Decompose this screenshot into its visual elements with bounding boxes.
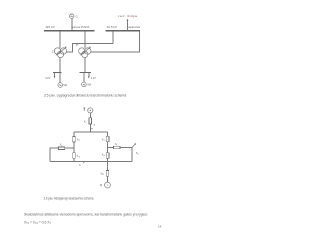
svg-text:a: a bbox=[94, 124, 96, 127]
wire bus to transformer T2 bbox=[84, 31, 86, 47]
svg-text:M: M bbox=[100, 183, 102, 187]
impedance Xs1 bbox=[73, 153, 81, 159]
svg-text:2T: 2T bbox=[76, 44, 79, 47]
wire XM to motor bbox=[107, 176, 109, 182]
wire bottom node bar bbox=[50, 160, 132, 162]
svg-text:XM: XM bbox=[100, 172, 104, 177]
wire left branch lower bbox=[73, 158, 75, 161]
impedance Xs bbox=[84, 118, 92, 124]
svg-text:XT1: XT1 bbox=[77, 138, 81, 143]
svg-text:14: 14 bbox=[158, 224, 162, 228]
wire left stub bbox=[65, 147, 74, 149]
wire top node bar bbox=[74, 131, 108, 133]
wire left branch upper bbox=[73, 132, 75, 137]
svg-text:S2: S2 bbox=[136, 151, 139, 156]
wire 10kV bus drop to tie line bbox=[112, 31, 114, 43]
bus 115 kV bbox=[44, 30, 94, 32]
wire left stub corner down bbox=[50, 148, 59, 161]
svg-text:115 kV: 115 kV bbox=[45, 25, 55, 29]
svg-text:Skaiciavimus atliekame vienodo: Skaiciavimus atliekame vienodoms apkrovo… bbox=[24, 212, 148, 216]
svg-text:6 kV: 6 kV bbox=[91, 77, 96, 80]
impedance Xk2 bbox=[114, 142, 120, 149]
svg-text:1T: 1T bbox=[52, 50, 55, 53]
wire T1 MV winding to 10kV bus tie bbox=[67, 43, 113, 52]
wire motor branch bbox=[107, 161, 109, 170]
svg-text:apkrova 25 MVA: apkrova 25 MVA bbox=[71, 25, 89, 29]
svg-text:XT2: XT2 bbox=[102, 137, 106, 142]
motor M bbox=[100, 182, 110, 188]
wire source to Xs bbox=[89, 113, 91, 118]
impedance XT1 bbox=[73, 137, 81, 143]
wire right stub to corner bbox=[120, 147, 132, 149]
svg-text:XT1 = XT2 = 0,5 XT: XT1 = XT2 = 0,5 XT bbox=[24, 220, 52, 225]
impedance Xs2 bbox=[102, 152, 109, 158]
wire Xs to node a bbox=[89, 124, 91, 132]
svg-text:Xs1: Xs1 bbox=[77, 154, 81, 159]
svg-text:apkrova: apkrova bbox=[128, 25, 141, 29]
wire right branch middle bbox=[107, 142, 109, 153]
wire right branch upper bbox=[107, 132, 109, 136]
wire right branch lower bbox=[107, 158, 109, 161]
wire T1 LV down to 6kV bar bbox=[59, 57, 61, 72]
svg-text:G: G bbox=[76, 15, 78, 19]
motor SM2 bbox=[82, 82, 91, 87]
impedance XT2 bbox=[102, 136, 109, 142]
motor SM1 bbox=[58, 83, 67, 88]
wire bar to motor SM1 bbox=[59, 73, 61, 83]
wire generator to 115kV bus bbox=[71, 18, 73, 30]
svg-text:3.5 pav. Lygiagreciai dirbanci: 3.5 pav. Lygiagreciai dirbanciu transfor… bbox=[44, 94, 127, 98]
wire right corner down bbox=[131, 148, 133, 162]
impedance Xk1 bbox=[59, 143, 65, 150]
wire right stub bbox=[108, 147, 114, 149]
bar 6 kV right bbox=[79, 72, 91, 74]
source E bbox=[83, 107, 93, 113]
wire bar to motor SM2 bbox=[83, 73, 85, 82]
wire T2 MV winding to 10kV bus right end bbox=[91, 31, 140, 52]
load arrow left bbox=[54, 73, 56, 79]
transformer T1 (three-winding, OLTC) bbox=[52, 47, 67, 58]
wire T2 LV down to 6kV bar bbox=[84, 57, 86, 72]
svg-text:Xk: Xk bbox=[115, 142, 118, 147]
impedance XM bbox=[100, 171, 108, 177]
wire left branch middle bbox=[73, 142, 75, 153]
svg-text:Xk: Xk bbox=[60, 143, 63, 148]
bar 6 kV left bbox=[53, 71, 61, 73]
node b bbox=[83, 161, 84, 163]
svg-text:6 kV: 6 kV bbox=[45, 77, 50, 80]
svg-text:Xs2: Xs2 bbox=[102, 152, 106, 157]
transformer T2 (three-winding, OLTC) bbox=[79, 47, 91, 58]
generator G1 bbox=[70, 14, 78, 19]
bus 10.5 kV bbox=[106, 30, 141, 32]
arrow load S2 bbox=[132, 143, 139, 156]
svg-text:10,5 kV: 10,5 kV bbox=[107, 25, 118, 29]
svg-text:SM: SM bbox=[63, 84, 67, 87]
arrow feeder up from 10kV bus bbox=[127, 19, 129, 31]
load arrow right bbox=[88, 73, 90, 79]
svg-text:Xs: Xs bbox=[84, 119, 87, 124]
svg-text:3.6 pav. Atstojamoji skaiciavi: 3.6 pav. Atstojamoji skaiciavimo schema bbox=[44, 197, 94, 201]
svg-text:SM: SM bbox=[87, 83, 91, 86]
svg-text:rez. linija: rez. linija bbox=[118, 14, 138, 18]
wire bus to transformer T1 bbox=[59, 31, 61, 47]
svg-text:b: b bbox=[79, 163, 81, 167]
